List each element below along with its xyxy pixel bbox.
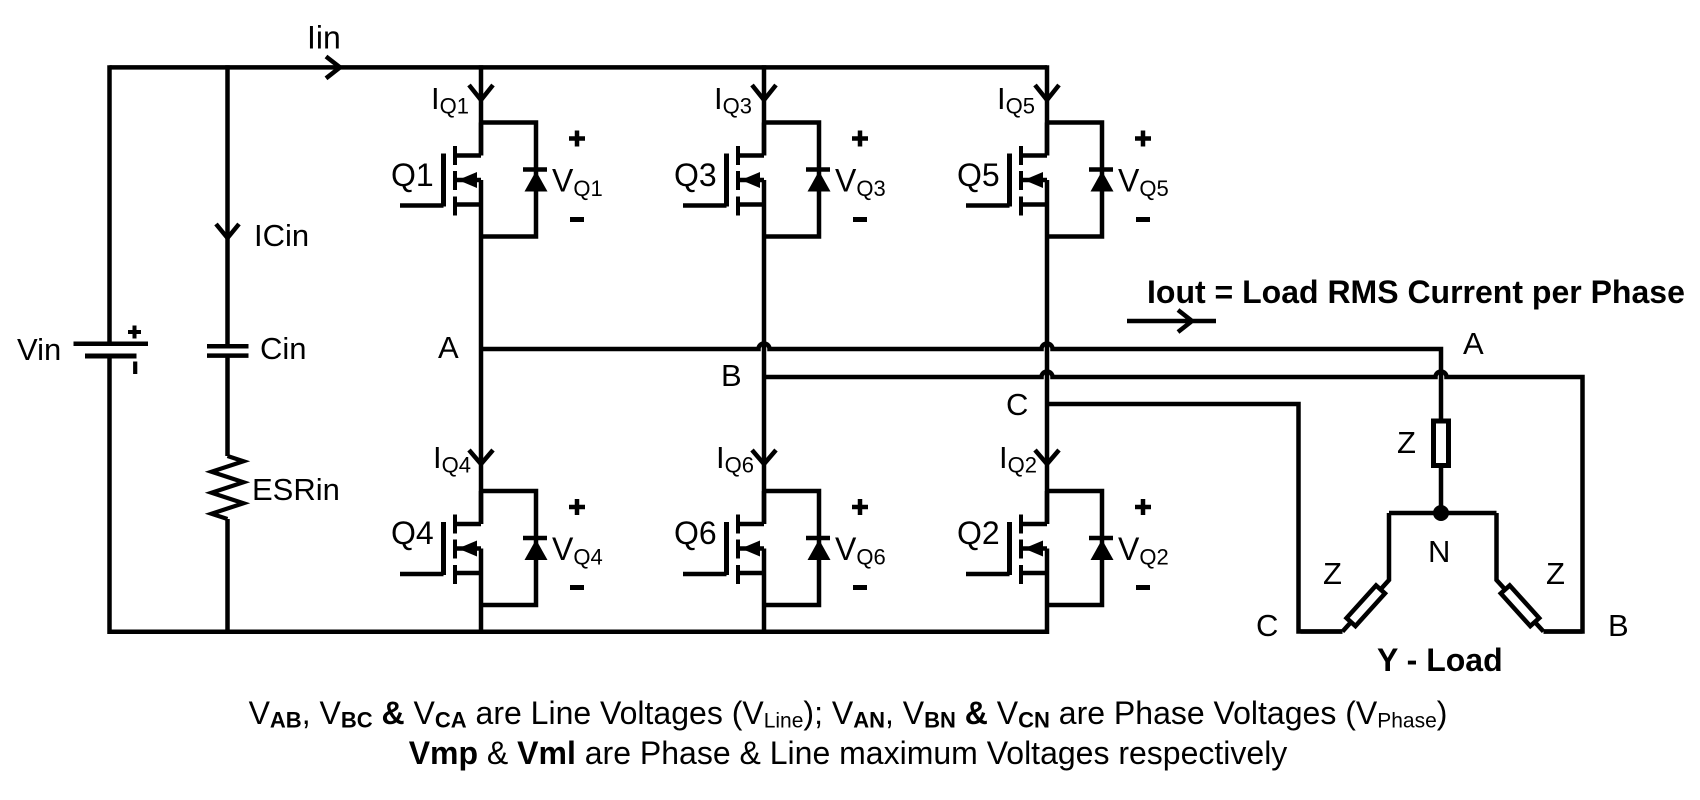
svg-text:IQ5: IQ5 [997, 81, 1035, 119]
svg-text:VQ3: VQ3 [835, 163, 886, 202]
wire N to Z phase B [1497, 513, 1544, 632]
svg-text:Iout = Load RMS Current per Ph: Iout = Load RMS Current per Phase [1147, 274, 1685, 310]
plus sign of VQ6 [852, 499, 868, 515]
transistor Q2 [966, 491, 1047, 605]
body diode of Q5 [1047, 123, 1114, 237]
current arrow IQ3 [752, 85, 776, 100]
svg-text:Z: Z [1546, 556, 1565, 591]
svg-text:Iin: Iin [307, 20, 341, 56]
wire leg Q5 drain [1045, 65, 1050, 155]
current arrow IQ4 [469, 450, 493, 464]
svg-text:Vin: Vin [17, 332, 61, 367]
svg-text:VQ6: VQ6 [835, 531, 886, 570]
wire node to Q4 drain [479, 349, 484, 524]
svg-text:VQ5: VQ5 [1118, 163, 1169, 202]
wire leg Q6 source to bottom rail [762, 605, 767, 634]
impedance Z phase C [1347, 585, 1385, 626]
plus sign of VQ3 [852, 131, 868, 147]
wire battery bottom [107, 356, 112, 634]
svg-text:Z: Z [1323, 556, 1342, 591]
wire leg Q1 source to node [479, 237, 484, 350]
wire leg Q5 source to node [1045, 237, 1050, 405]
svg-text:C: C [1256, 608, 1278, 643]
capacitor Cin [207, 346, 249, 355]
svg-text:N: N [1428, 534, 1450, 569]
svg-text:Q5: Q5 [957, 157, 1000, 193]
svg-text:Cin: Cin [260, 331, 307, 366]
minus sign of VQ1 [570, 217, 584, 222]
transistor Q1 [400, 123, 481, 237]
impedance Z phase A [1434, 421, 1449, 466]
wire top rail [110, 65, 1048, 70]
transistor Q4 [400, 491, 481, 605]
svg-text:Q4: Q4 [391, 515, 434, 551]
minus sign of VQ2 [1136, 585, 1150, 590]
svg-text:IQ4: IQ4 [433, 440, 471, 478]
transistor Q5 [966, 123, 1047, 237]
wire node to Q6 drain [762, 377, 767, 524]
plus sign of VQ4 [569, 499, 585, 515]
wire N shoulder [1389, 511, 1497, 516]
wire node to Q2 drain [1045, 404, 1050, 524]
svg-text:Q2: Q2 [957, 515, 1000, 551]
current arrow IQ1 [469, 85, 493, 100]
svg-text:Q3: Q3 [674, 157, 717, 193]
resistor ESRin [212, 456, 244, 519]
wire leg Q3 source to node [762, 237, 767, 378]
svg-text:Y - Load: Y - Load [1377, 642, 1503, 678]
svg-text:Q6: Q6 [674, 515, 717, 551]
body diode of Q4 [481, 491, 548, 605]
wire leg Q2 source to bottom rail [1045, 605, 1050, 634]
svg-text:VAB, VBC & VCA are Line Voltag: VAB, VBC & VCA are Line Voltages (VLine)… [249, 695, 1448, 733]
body diode of Q3 [764, 123, 831, 237]
wire bottom rail [110, 630, 1048, 635]
svg-text:C: C [1006, 387, 1028, 422]
svg-text:ICin: ICin [254, 218, 309, 253]
Iout arrow [1127, 310, 1216, 332]
Iin arrow [326, 57, 340, 79]
svg-text:IQ3: IQ3 [714, 81, 752, 119]
current arrow IQ2 [1035, 450, 1059, 464]
wire phase C [1047, 404, 1343, 632]
svg-text:IQ2: IQ2 [999, 440, 1037, 478]
wire C corner [1301, 629, 1343, 634]
current arrow IQ5 [1035, 85, 1059, 100]
impedance Z phase B [1501, 585, 1539, 626]
svg-text:B: B [1608, 608, 1629, 643]
svg-text:VQ2: VQ2 [1118, 531, 1169, 570]
wire phase A [481, 344, 1441, 422]
wire Cin top [225, 65, 230, 346]
body diode of Q1 [481, 123, 548, 237]
body diode of Q2 [1047, 491, 1114, 605]
svg-text:VQ4: VQ4 [552, 531, 603, 570]
plus sign of VQ1 [569, 131, 585, 147]
ICin arrow [216, 224, 239, 238]
svg-text:IQ1: IQ1 [431, 81, 469, 119]
wire phase B [764, 372, 1583, 632]
svg-text:IQ6: IQ6 [716, 440, 754, 478]
svg-text:A: A [438, 330, 459, 365]
svg-text:B: B [721, 358, 742, 393]
minus sign of VQ3 [853, 217, 867, 222]
minus sign of VQ4 [570, 585, 584, 590]
svg-text:Vmp & Vml are Phase & Line max: Vmp & Vml are Phase & Line maximum Volta… [409, 735, 1288, 771]
svg-text:Z: Z [1397, 425, 1416, 460]
battery Vin [74, 326, 149, 375]
minus sign of VQ6 [853, 585, 867, 590]
minus sign of VQ5 [1136, 217, 1150, 222]
wire ESRin to bottom rail [225, 519, 230, 632]
current arrow IQ6 [752, 450, 776, 464]
svg-text:ESRin: ESRin [252, 472, 340, 507]
wire leg Q3 drain [762, 65, 767, 155]
transistor Q6 [683, 491, 764, 605]
wire Z-A to N [1439, 468, 1444, 513]
wire N to Z phase C [1343, 513, 1390, 632]
svg-text:Q1: Q1 [391, 157, 434, 193]
wire leg Q1 drain [479, 65, 484, 155]
body diode of Q6 [764, 491, 831, 605]
wire B corner [1544, 629, 1583, 634]
wire Cin to ESRin [225, 356, 230, 456]
svg-text:VQ1: VQ1 [552, 163, 603, 202]
plus sign of VQ5 [1135, 131, 1151, 147]
plus sign of VQ2 [1135, 499, 1151, 515]
node N junction dot [1433, 505, 1449, 521]
svg-text:A: A [1463, 326, 1484, 361]
wire battery top [107, 65, 112, 343]
wire leg Q4 source to bottom rail [479, 605, 484, 634]
transistor Q3 [683, 123, 764, 237]
